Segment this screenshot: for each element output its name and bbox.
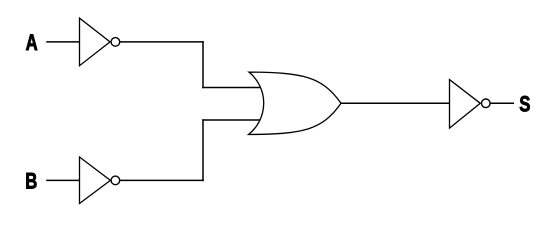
- node A label: [26, 31, 38, 56]
- wire OR gate lower input: [203, 119, 261, 121]
- inverter U2 triangle: [80, 157, 111, 204]
- inverter U4 triangle: [450, 80, 481, 129]
- node S label: [519, 92, 530, 117]
- svg-text:A: A: [26, 31, 38, 56]
- wire input B to inverter U2: [47, 179, 80, 181]
- inverter U4 output bubble: [482, 99, 491, 108]
- wire OR output to inverter U4: [341, 102, 450, 104]
- inverter U1 output bubble: [111, 38, 120, 47]
- or-gate U3 body: [249, 72, 342, 134]
- node B label: [25, 169, 37, 194]
- wire U2 output horizontal: [120, 179, 203, 181]
- wire OR gate upper input: [203, 87, 261, 89]
- inverter U2 output bubble: [111, 176, 120, 185]
- svg-text:B: B: [25, 169, 37, 194]
- wire U4 output to S: [490, 102, 513, 104]
- wire U1 output horizontal: [120, 41, 203, 43]
- wire input A to inverter U1: [47, 41, 80, 43]
- svg-text:S: S: [519, 92, 530, 117]
- inverter U1 triangle: [80, 18, 111, 66]
- wire vertical down to OR upper input: [202, 42, 204, 88]
- wire vertical up to OR lower input: [202, 120, 204, 180]
